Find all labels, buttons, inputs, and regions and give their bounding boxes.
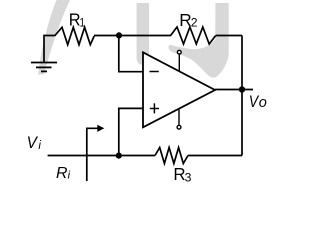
svg-text:R: R (179, 10, 191, 30)
svg-text:2: 2 (191, 15, 198, 29)
svg-text:1: 1 (80, 17, 85, 30)
svg-text:o: o (259, 95, 267, 111)
svg-text:3: 3 (185, 170, 192, 184)
svg-text:R: R (56, 165, 67, 182)
svg-text:V: V (27, 133, 38, 152)
svg-text:i: i (38, 140, 41, 152)
